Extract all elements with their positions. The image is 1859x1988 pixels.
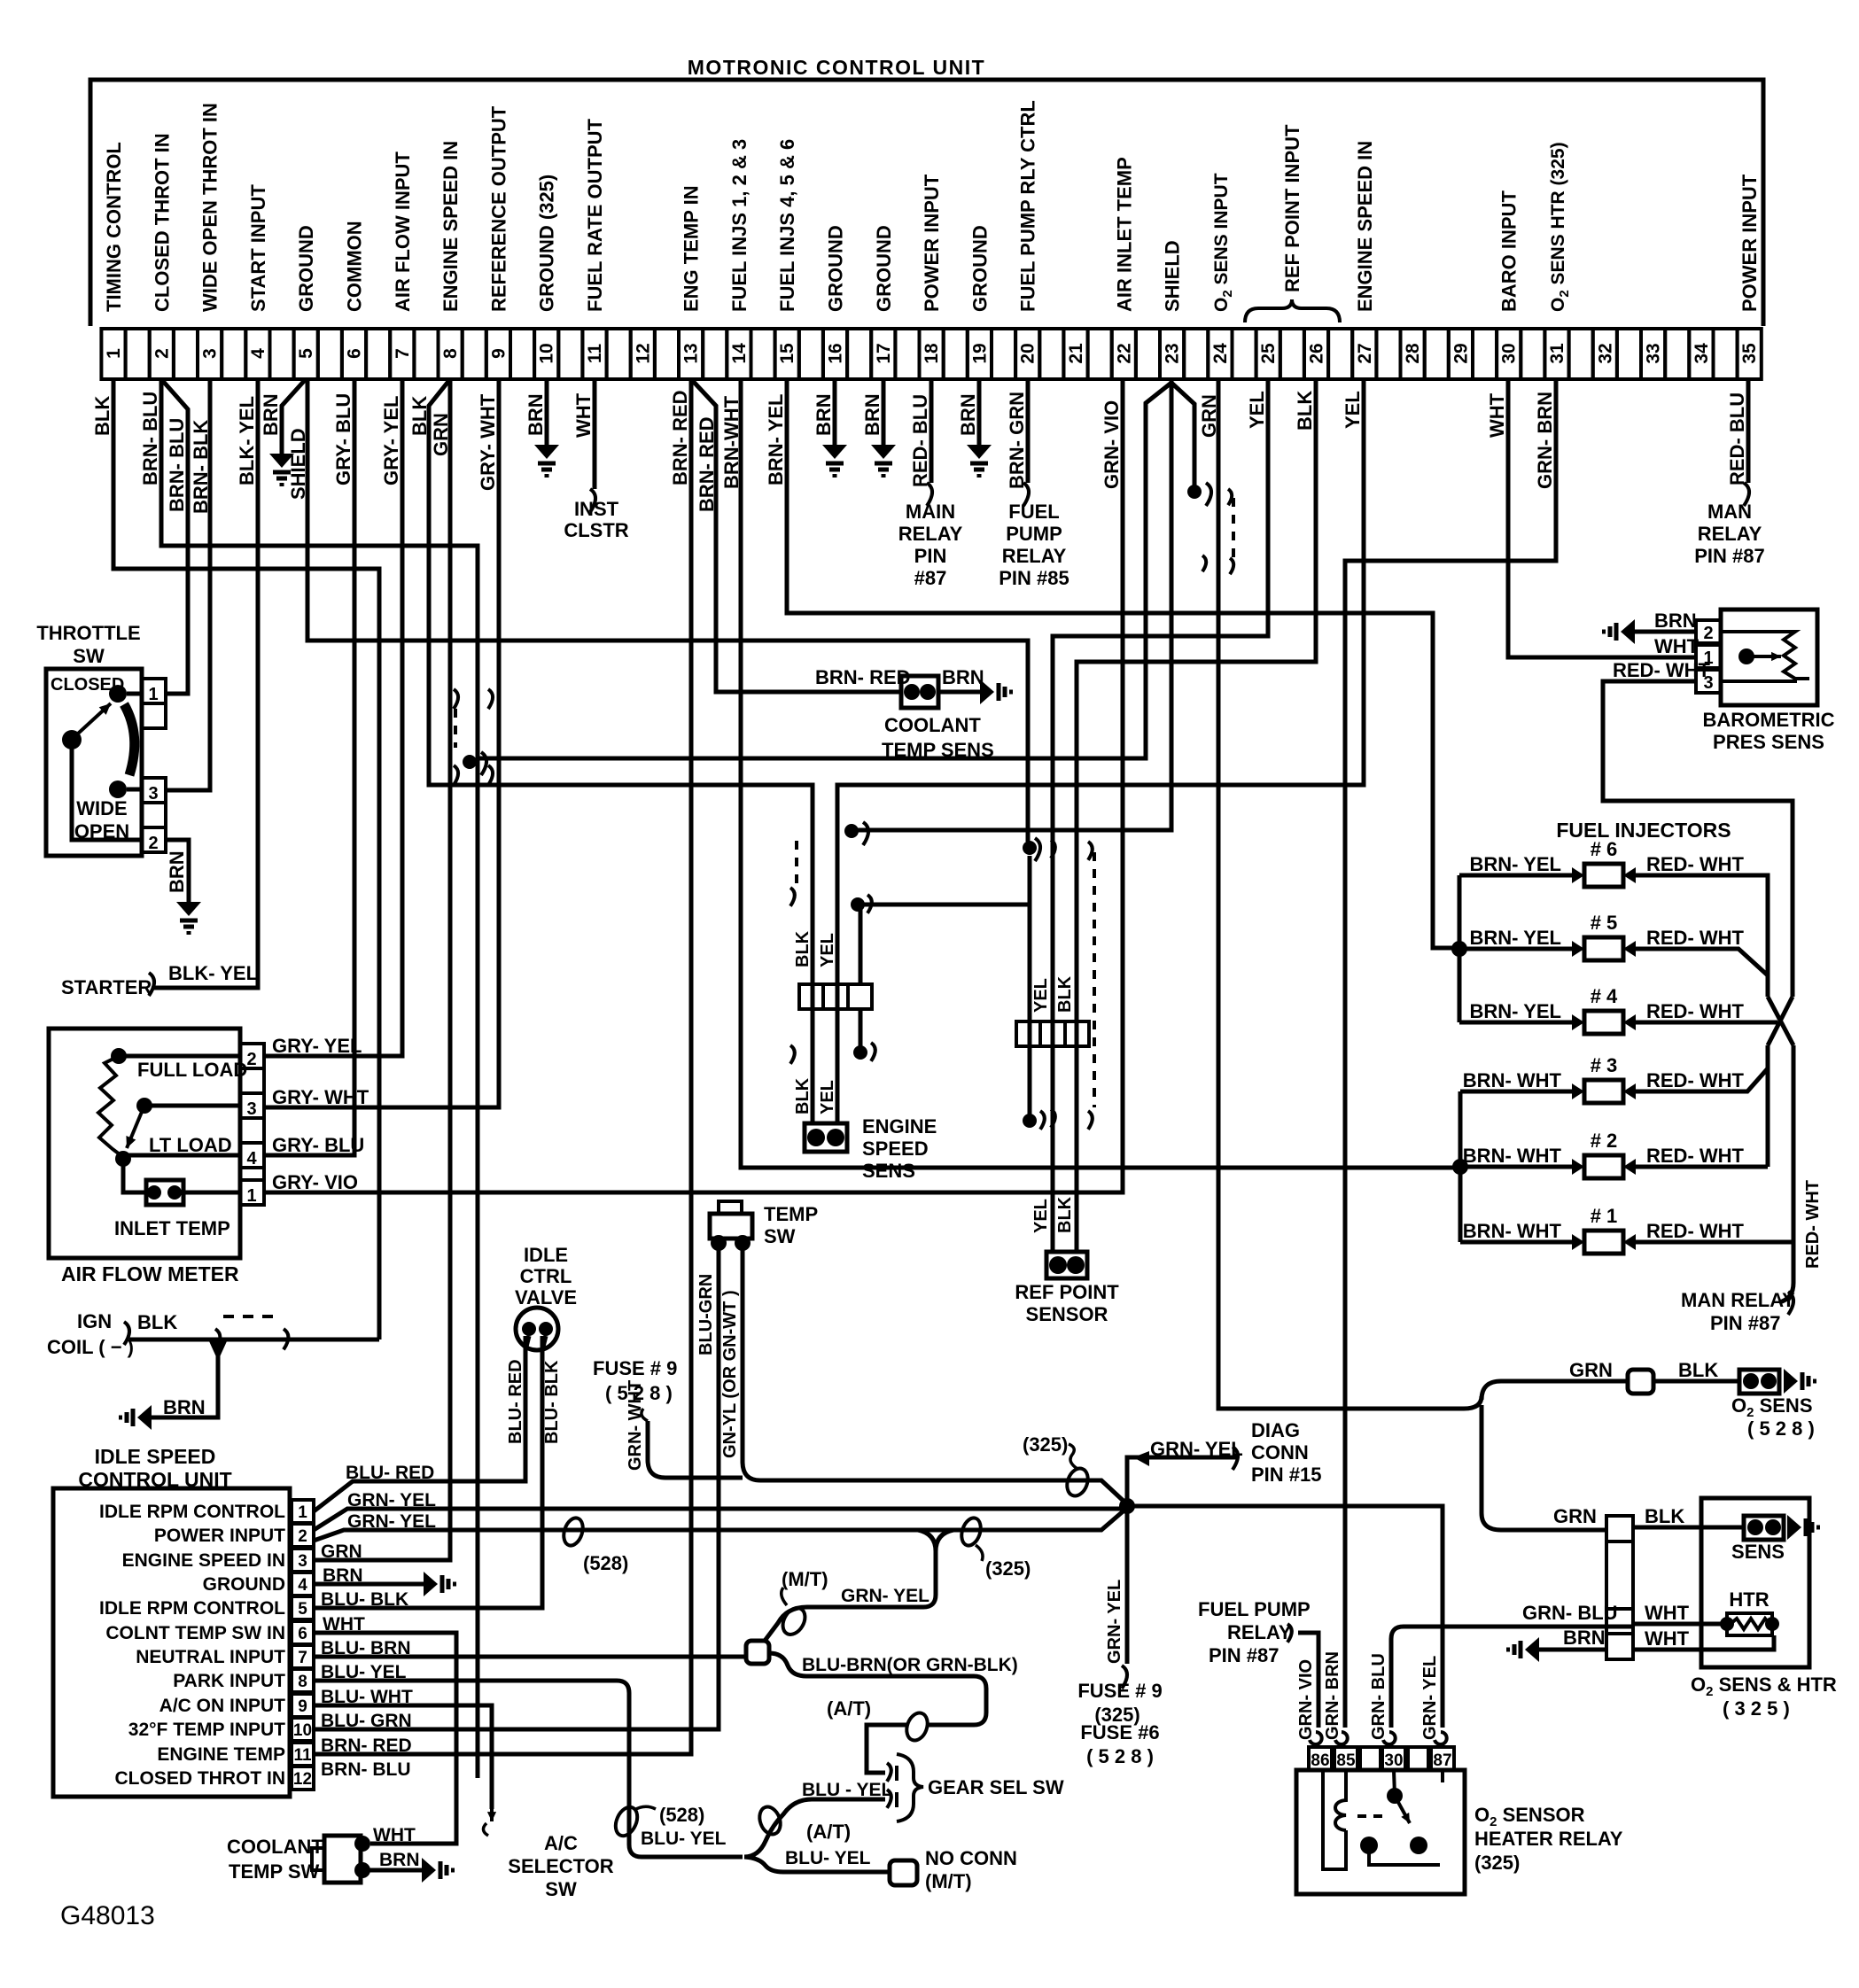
wire pin4 BLK-YEL to starter bbox=[152, 379, 258, 988]
inline connector on BRN-BLU closed-throt wire bbox=[454, 689, 458, 709]
svg-text:RELAY: RELAY bbox=[1227, 1621, 1292, 1643]
svg-text:COLNT TEMP SW IN: COLNT TEMP SW IN bbox=[105, 1623, 285, 1643]
svg-text:(M/T): (M/T) bbox=[925, 1870, 972, 1892]
svg-text:YEL: YEL bbox=[818, 1080, 837, 1114]
baro terminal 1 bbox=[1696, 645, 1721, 668]
svg-text:14: 14 bbox=[729, 343, 750, 364]
svg-text:FUEL RATE OUTPUT: FUEL RATE OUTPUT bbox=[584, 118, 606, 312]
svg-text:FUEL: FUEL bbox=[1008, 501, 1059, 523]
gear connector rect bbox=[746, 1641, 769, 1664]
svg-text:NO CONN: NO CONN bbox=[925, 1847, 1017, 1869]
svg-text:11: 11 bbox=[585, 344, 605, 364]
svg-text:BLK- YEL: BLK- YEL bbox=[236, 396, 258, 485]
svg-text:CTRL: CTRL bbox=[520, 1265, 572, 1287]
svg-text:IDLE SPEED: IDLE SPEED bbox=[95, 1445, 216, 1468]
wire pin13 BRN-RED to coolant temp sens bbox=[691, 379, 901, 692]
air flow meter box bbox=[49, 1029, 240, 1258]
ign coil wire bbox=[129, 1338, 379, 1342]
svg-text:( 3 2 5 ): ( 3 2 5 ) bbox=[1723, 1697, 1790, 1720]
svg-text:BLK: BLK bbox=[91, 396, 113, 436]
svg-text:17: 17 bbox=[874, 343, 894, 363]
svg-text:BLK: BLK bbox=[793, 1077, 813, 1114]
svg-text:8: 8 bbox=[440, 348, 461, 359]
wire pin24 GRN to O2 sensors bbox=[1218, 379, 1482, 1409]
svg-text:12: 12 bbox=[293, 1770, 312, 1789]
svg-text:SENS: SENS bbox=[862, 1160, 915, 1182]
svg-text:AIR INLET TEMP: AIR INLET TEMP bbox=[1113, 157, 1135, 312]
ISCU terminal 11 bbox=[292, 1743, 314, 1766]
baro wiper bbox=[1738, 648, 1754, 664]
svg-text:BARO INPUT: BARO INPUT bbox=[1498, 190, 1521, 312]
svg-text:AIR FLOW METER: AIR FLOW METER bbox=[61, 1262, 239, 1285]
wire pin17 BRN ground bbox=[882, 379, 886, 445]
MT branch from lower GRN-YEL bbox=[765, 1530, 936, 1641]
wire pin2 BRN-BLU to throttle sw 1 bbox=[161, 379, 188, 694]
brace over pins 25-26 REF POINT INPUT bbox=[1245, 299, 1340, 322]
ISCU terminal 8 bbox=[292, 1669, 314, 1692]
fuel injector 5 bbox=[1584, 937, 1623, 960]
svg-text:(528): (528) bbox=[659, 1804, 704, 1826]
svg-text:PIN #87: PIN #87 bbox=[1694, 545, 1765, 567]
svg-text:COIL ( − ): COIL ( − ) bbox=[47, 1336, 134, 1358]
svg-text:(A/T): (A/T) bbox=[806, 1821, 851, 1843]
svg-text:1: 1 bbox=[148, 685, 158, 704]
REF connector row bbox=[1016, 1021, 1040, 1046]
svg-text:FUEL PUMP: FUEL PUMP bbox=[1198, 1598, 1311, 1620]
svg-text:BLK- YEL: BLK- YEL bbox=[168, 962, 258, 984]
throttle terminal blank2 bbox=[142, 803, 166, 827]
svg-text:RED- WHT: RED- WHT bbox=[1646, 1069, 1745, 1091]
svg-text:PIN #15: PIN #15 bbox=[1251, 1464, 1322, 1486]
svg-text:GRY- BLU: GRY- BLU bbox=[332, 393, 354, 485]
wire pin22 GRN-VIO to air flow 1 bbox=[264, 379, 1123, 1192]
svg-text:1: 1 bbox=[298, 1503, 307, 1522]
svg-text:VALVE: VALVE bbox=[515, 1286, 577, 1309]
baro BRN ground wire bbox=[1635, 630, 1696, 634]
wire pin20 BRN-GRN to fuel pump relay bbox=[1026, 379, 1031, 483]
svg-text:POWER INPUT: POWER INPUT bbox=[921, 174, 943, 312]
ISCU t1 BLU-RED wire to idle valve bbox=[314, 1336, 525, 1511]
injector left bus BRN-YEL bbox=[1458, 875, 1462, 1022]
svg-text:GROUND: GROUND bbox=[203, 1574, 285, 1595]
svg-text:(A/T): (A/T) bbox=[827, 1697, 871, 1720]
svg-text:O2 SENS HTR (325): O2 SENS HTR (325) bbox=[1548, 142, 1572, 312]
svg-text:(M/T): (M/T) bbox=[782, 1568, 828, 1590]
svg-text:FUEL INJS 4, 5 & 6: FUEL INJS 4, 5 & 6 bbox=[776, 139, 798, 312]
svg-text:REF POINT: REF POINT bbox=[1015, 1281, 1119, 1303]
svg-text:RED- BLU: RED- BLU bbox=[1726, 392, 1748, 485]
ISCU t7 BLU-BRN wire to gear connector bbox=[314, 1655, 746, 1659]
svg-text:18: 18 bbox=[922, 343, 942, 364]
GRN-BLU wire relay 30 to O2 htr bbox=[1391, 1627, 1633, 1728]
svg-text:(528): (528) bbox=[583, 1552, 628, 1574]
wire pin16 BRN ground bbox=[833, 379, 837, 445]
svg-text:REFERENCE OUTPUT: REFERENCE OUTPUT bbox=[487, 105, 509, 312]
svg-text:SENSOR: SENSOR bbox=[1026, 1303, 1108, 1325]
svg-text:4: 4 bbox=[248, 348, 268, 359]
throttle terminal 3 bbox=[142, 778, 166, 803]
svg-text:20: 20 bbox=[1018, 343, 1038, 363]
svg-text:TEMP: TEMP bbox=[764, 1203, 818, 1225]
svg-text:( 5 2 8 ): ( 5 2 8 ) bbox=[1086, 1745, 1154, 1767]
GRN-YEL junction node bbox=[1119, 1498, 1135, 1514]
svg-text:2: 2 bbox=[1703, 624, 1713, 643]
svg-text:WHT: WHT bbox=[1486, 392, 1508, 438]
svg-text:CONTROL UNIT: CONTROL UNIT bbox=[78, 1468, 231, 1491]
air flow full load contact bbox=[111, 1048, 127, 1064]
air flow lt load contact bbox=[115, 1151, 131, 1167]
svg-text:REF POINT INPUT: REF POINT INPUT bbox=[1281, 124, 1303, 292]
svg-text:G48013: G48013 bbox=[60, 1901, 155, 1930]
svg-text:BRN: BRN bbox=[379, 1850, 420, 1870]
O2 sens 528 connector bbox=[1739, 1370, 1779, 1394]
svg-text:CLOSED THROT IN: CLOSED THROT IN bbox=[115, 1768, 286, 1789]
svg-text:BRN- RED: BRN- RED bbox=[321, 1736, 412, 1756]
svg-text:BRN- YEL: BRN- YEL bbox=[1470, 853, 1562, 875]
svg-text:4: 4 bbox=[246, 1149, 257, 1169]
ISCU t9 BLU-WHT wire to A/C selector bbox=[314, 1705, 492, 1809]
ISCU terminal 7 bbox=[292, 1645, 314, 1668]
svg-text:13: 13 bbox=[681, 343, 702, 363]
svg-text:PIN #85: PIN #85 bbox=[999, 567, 1070, 589]
temp switch bbox=[719, 1201, 742, 1214]
svg-text:BRN: BRN bbox=[861, 393, 883, 436]
svg-text:GRN: GRN bbox=[321, 1541, 362, 1562]
svg-text:GRY- VIO: GRY- VIO bbox=[272, 1171, 358, 1193]
O2 sens htr box bbox=[1701, 1498, 1809, 1667]
fuel injector 4 bbox=[1584, 1011, 1623, 1034]
svg-text:A/C: A/C bbox=[544, 1832, 578, 1854]
svg-text:PUMP: PUMP bbox=[1006, 523, 1062, 545]
svg-text:WHT: WHT bbox=[1645, 1602, 1690, 1624]
svg-text:GRN- YEL: GRN- YEL bbox=[347, 1490, 436, 1510]
ISCU t8 BLU-YEL wire bbox=[314, 1681, 743, 1857]
svg-text:START INPUT: START INPUT bbox=[247, 184, 269, 312]
svg-text:2: 2 bbox=[246, 1050, 256, 1069]
svg-text:TIMING CONTROL: TIMING CONTROL bbox=[103, 142, 125, 312]
svg-text:IGN: IGN bbox=[77, 1310, 112, 1332]
svg-text:INLET TEMP: INLET TEMP bbox=[114, 1217, 230, 1239]
svg-text:BRN: BRN bbox=[163, 1396, 206, 1418]
svg-text:PIN: PIN bbox=[914, 545, 947, 567]
wire pin5 SHIELD to ESS cable shield bbox=[307, 379, 1028, 842]
svg-text:GEAR SEL SW: GEAR SEL SW bbox=[928, 1776, 1064, 1798]
svg-text:CLSTR: CLSTR bbox=[564, 519, 628, 541]
svg-text:32: 32 bbox=[1595, 343, 1615, 363]
svg-text:IDLE RPM CONTROL: IDLE RPM CONTROL bbox=[99, 1598, 285, 1619]
O2 325 BRN/WHT row bbox=[1539, 1648, 1606, 1652]
svg-text:6: 6 bbox=[298, 1625, 307, 1643]
svg-text:YEL: YEL bbox=[1342, 391, 1364, 429]
svg-text:GRY- YEL: GRY- YEL bbox=[272, 1035, 362, 1057]
ISCU terminal 5 bbox=[292, 1596, 314, 1619]
svg-text:32°F TEMP INPUT: 32°F TEMP INPUT bbox=[128, 1720, 285, 1740]
relay coil bbox=[1323, 1770, 1346, 1869]
svg-text:BLU- BLK: BLU- BLK bbox=[321, 1589, 408, 1610]
svg-text:16: 16 bbox=[826, 343, 846, 363]
wire pin5 BRN to ground bbox=[282, 379, 306, 454]
ign junction to BRN ground bbox=[209, 1341, 227, 1361]
svg-text:# 1: # 1 bbox=[1591, 1205, 1618, 1227]
svg-text:30: 30 bbox=[1499, 343, 1520, 363]
svg-text:GRN- YEL: GRN- YEL bbox=[347, 1511, 436, 1532]
svg-text:SELECTOR: SELECTOR bbox=[508, 1855, 614, 1877]
svg-text:5: 5 bbox=[296, 348, 316, 359]
svg-text:BLU- YEL: BLU- YEL bbox=[321, 1662, 407, 1682]
svg-text:BLK: BLK bbox=[793, 930, 813, 967]
wire pin1 BLK timing control to IGN coil bbox=[113, 379, 379, 1340]
svg-text:GRN- YEL: GRN- YEL bbox=[1420, 1656, 1440, 1740]
MCU pin connector row (pins 1-35) bbox=[101, 329, 125, 379]
svg-text:PARK INPUT: PARK INPUT bbox=[173, 1671, 285, 1691]
svg-text:GROUND: GROUND bbox=[873, 225, 895, 312]
junction right branch to O2 heater relay 87 bbox=[1127, 1506, 1443, 1728]
svg-text:GRY- WHT: GRY- WHT bbox=[477, 393, 499, 491]
wire pin19 BRN ground bbox=[977, 379, 982, 445]
svg-text:31: 31 bbox=[1547, 343, 1567, 364]
svg-text:BRN: BRN bbox=[166, 850, 188, 893]
svg-text:BRN: BRN bbox=[942, 666, 984, 688]
svg-text:21: 21 bbox=[1066, 343, 1086, 364]
svg-text:BRN- WHT: BRN- WHT bbox=[1463, 1069, 1562, 1091]
svg-text:INST: INST bbox=[574, 498, 619, 520]
svg-text:9: 9 bbox=[488, 348, 509, 359]
throttle terminal blank bbox=[142, 703, 166, 728]
svg-text:POWER INPUT: POWER INPUT bbox=[1738, 174, 1761, 312]
throttle common wire to t2 bbox=[72, 747, 142, 840]
svg-text:BLK: BLK bbox=[1678, 1359, 1718, 1381]
svg-text:TEMP SW: TEMP SW bbox=[229, 1860, 320, 1883]
wire-end curls above relay terminals bbox=[1310, 1732, 1322, 1744]
svg-text:FUEL INJECTORS: FUEL INJECTORS bbox=[1556, 819, 1731, 842]
air flow resistor zigzag bbox=[98, 1056, 123, 1157]
svg-text:7: 7 bbox=[393, 348, 413, 359]
svg-text:ENGINE SPEED IN: ENGINE SPEED IN bbox=[439, 141, 462, 312]
svg-text:GROUND: GROUND bbox=[295, 225, 317, 312]
svg-text:GRN- BRN: GRN- BRN bbox=[1534, 392, 1556, 489]
wire pin15 BRN-YEL to injector bus bbox=[787, 379, 1453, 948]
svg-text:BRN- YEL: BRN- YEL bbox=[1470, 927, 1562, 949]
svg-text:BRN- GRN: BRN- GRN bbox=[1006, 392, 1028, 489]
svg-text:BRN: BRN bbox=[323, 1565, 363, 1586]
svg-text:1: 1 bbox=[104, 348, 124, 359]
baro terminal 2 bbox=[1696, 620, 1721, 643]
svg-text:BRN- RED: BRN- RED bbox=[815, 666, 911, 688]
svg-text:BRN- BLU: BRN- BLU bbox=[139, 392, 161, 485]
fuel injector 2 bbox=[1584, 1155, 1623, 1178]
svg-text:27: 27 bbox=[1355, 343, 1375, 363]
ISCU terminal 9 bbox=[292, 1694, 314, 1717]
svg-text:GRN: GRN bbox=[1569, 1359, 1613, 1381]
O2 325 connector strip bbox=[1606, 1516, 1633, 1541]
ESS drain wire upper bbox=[859, 905, 863, 984]
wire pin14 BRN-WHT to injector bus bbox=[741, 379, 1460, 1168]
svg-text:BLU- BLK: BLU- BLK bbox=[542, 1360, 562, 1444]
svg-text:TEMP SENS: TEMP SENS bbox=[882, 739, 994, 761]
wire pin2 BRN-BLU to ISCU t12 bbox=[161, 379, 478, 1778]
svg-text:GRY- WHT: GRY- WHT bbox=[272, 1086, 369, 1108]
ISCU terminal 6 bbox=[292, 1621, 314, 1644]
svg-text:GRN- BRN: GRN- BRN bbox=[1323, 1651, 1342, 1740]
svg-text:19: 19 bbox=[969, 343, 990, 363]
svg-text:3: 3 bbox=[298, 1552, 307, 1571]
svg-text:9: 9 bbox=[298, 1697, 307, 1716]
fuel injector 3 bbox=[1584, 1080, 1623, 1103]
wire pin27 YEL to engine speed sensor bbox=[837, 379, 1364, 1125]
325 loop on lower GRN-YEL bbox=[959, 1516, 984, 1549]
svg-text:HTR: HTR bbox=[1729, 1588, 1769, 1611]
svg-text:BRN- RED: BRN- RED bbox=[669, 390, 691, 485]
ISCU t5 BLU-BLK wire to idle valve bbox=[314, 1336, 542, 1608]
svg-text:BLU- RED: BLU- RED bbox=[346, 1463, 434, 1483]
X crossing bbox=[1768, 997, 1793, 1045]
svg-text:O2 SENS: O2 SENS bbox=[1731, 1394, 1813, 1420]
svg-text:SPEED: SPEED bbox=[862, 1138, 929, 1160]
svg-text:85: 85 bbox=[1336, 1751, 1356, 1770]
svg-text:26: 26 bbox=[1307, 343, 1327, 363]
svg-text:ENGINE: ENGINE bbox=[862, 1115, 937, 1138]
svg-text:BRN: BRN bbox=[813, 393, 835, 436]
svg-text:GN-YL (OR GN-WT ): GN-YL (OR GN-WT ) bbox=[720, 1290, 740, 1458]
svg-text:BRN- BLU: BRN- BLU bbox=[321, 1759, 410, 1780]
svg-text:3: 3 bbox=[148, 784, 158, 804]
svg-text:CONN: CONN bbox=[1251, 1441, 1309, 1464]
throttle arm arrow bbox=[62, 730, 82, 749]
wire pin30 WHT to barometric sensor bbox=[1508, 379, 1696, 657]
svg-text:RELAY: RELAY bbox=[1698, 523, 1762, 545]
svg-text:COOLANT: COOLANT bbox=[884, 714, 981, 736]
svg-text:2: 2 bbox=[298, 1527, 307, 1546]
svg-text:WHT: WHT bbox=[572, 392, 595, 438]
svg-text:GRN- WHT: GRN- WHT bbox=[626, 1380, 645, 1471]
wire pin6 GRY-BLU to air flow 4 bbox=[264, 379, 354, 1155]
svg-text:#87: #87 bbox=[914, 567, 947, 589]
svg-text:11: 11 bbox=[293, 1746, 312, 1765]
325 loop on GRN-YEL feed bbox=[1063, 1465, 1092, 1499]
svg-text:BLK: BLK bbox=[1055, 1196, 1075, 1233]
svg-text:CLOSED THROT IN: CLOSED THROT IN bbox=[151, 133, 173, 312]
svg-text:ENG TEMP IN: ENG TEMP IN bbox=[681, 185, 703, 312]
wire pin10 BRN ground bbox=[545, 379, 549, 445]
O2 sens 528 inline connector bbox=[1628, 1370, 1653, 1394]
svg-text:FUSE # 9: FUSE # 9 bbox=[593, 1357, 677, 1379]
svg-text:BLK: BLK bbox=[137, 1311, 177, 1333]
svg-text:2: 2 bbox=[152, 348, 172, 359]
svg-text:GRN- YEL: GRN- YEL bbox=[841, 1586, 929, 1606]
wire pin26 BLK to ref point sensor bbox=[1077, 379, 1316, 1252]
528 loop on BLU-YEL bbox=[611, 1804, 642, 1839]
coolant sw BRN wire to ground bbox=[362, 1868, 422, 1873]
svg-text:ENGINE SPEED IN: ENGINE SPEED IN bbox=[1354, 141, 1376, 312]
AT loop and drop to gear sel contact bbox=[903, 1710, 931, 1743]
svg-text:PIN #87: PIN #87 bbox=[1209, 1644, 1280, 1666]
gear sel sw brace bbox=[897, 1754, 923, 1821]
baro terminal 3 bbox=[1696, 670, 1721, 693]
relay box bbox=[1296, 1770, 1465, 1894]
air flow terminals 2,3,4,1 bbox=[240, 1044, 264, 1068]
svg-text:RELAY: RELAY bbox=[1002, 545, 1067, 567]
svg-text:FUEL PUMP RLY CTRL: FUEL PUMP RLY CTRL bbox=[1017, 100, 1039, 312]
svg-text:YEL: YEL bbox=[1031, 978, 1051, 1013]
pin23 shield dashed connector bbox=[1232, 498, 1235, 558]
ESS sensor connector bbox=[805, 1123, 847, 1152]
svg-text:RED- WHT: RED- WHT bbox=[1646, 1145, 1745, 1167]
svg-text:23: 23 bbox=[1163, 343, 1183, 363]
BLU-BRN OR GRN-BLK wire to AT gear switch bbox=[769, 1653, 986, 1725]
ISCU terminal 3 bbox=[292, 1549, 314, 1572]
svg-text:(325): (325) bbox=[1023, 1433, 1068, 1456]
svg-text:BRN: BRN bbox=[957, 393, 979, 436]
Motronic control unit box bbox=[90, 80, 1763, 326]
svg-text:NEUTRAL INPUT: NEUTRAL INPUT bbox=[136, 1647, 285, 1667]
injector right RED-WHT wires and X hub bbox=[1636, 875, 1768, 997]
throttle closed contact bbox=[109, 685, 127, 703]
svg-text:86: 86 bbox=[1311, 1751, 1329, 1770]
svg-text:33: 33 bbox=[1644, 343, 1664, 363]
svg-text:4: 4 bbox=[298, 1576, 307, 1595]
svg-text:COOLANT: COOLANT bbox=[227, 1836, 323, 1858]
svg-text:(325): (325) bbox=[985, 1557, 1031, 1580]
svg-text:# 4: # 4 bbox=[1591, 985, 1618, 1007]
svg-text:RED- WHT: RED- WHT bbox=[1613, 659, 1711, 681]
svg-text:FUSE # 9: FUSE # 9 bbox=[1077, 1680, 1162, 1702]
ISCU terminal 4 bbox=[292, 1573, 314, 1596]
svg-text:STARTER: STARTER bbox=[61, 976, 152, 998]
svg-text:12: 12 bbox=[633, 343, 653, 363]
ISCU terminal 2 bbox=[292, 1524, 314, 1547]
relay dashed link bbox=[1357, 1814, 1386, 1818]
svg-text:3: 3 bbox=[246, 1099, 256, 1119]
svg-text:DIAG: DIAG bbox=[1251, 1419, 1300, 1441]
REF cable shield arcs top bbox=[1051, 840, 1055, 858]
svg-text:BRN- YEL: BRN- YEL bbox=[1470, 1000, 1562, 1022]
svg-text:WIDE: WIDE bbox=[76, 797, 127, 819]
wire pin8 GRN to ISCU t3 bbox=[314, 379, 450, 1560]
relay switch bbox=[1387, 1788, 1403, 1804]
relay terminals bbox=[1309, 1747, 1332, 1770]
svg-text:22: 22 bbox=[1114, 343, 1134, 363]
svg-text:1: 1 bbox=[246, 1186, 256, 1206]
svg-text:RED- WHT: RED- WHT bbox=[1646, 927, 1745, 949]
svg-text:BLK: BLK bbox=[1645, 1505, 1684, 1527]
svg-text:2: 2 bbox=[148, 834, 158, 853]
svg-text:SENS: SENS bbox=[1731, 1541, 1785, 1563]
svg-text:15: 15 bbox=[777, 343, 797, 364]
svg-text:BRN: BRN bbox=[1563, 1627, 1606, 1649]
svg-text:SHIELD: SHIELD bbox=[1162, 240, 1184, 312]
svg-text:SW: SW bbox=[764, 1225, 796, 1247]
svg-text:BLU- BRN: BLU- BRN bbox=[321, 1638, 410, 1658]
svg-text:WHT: WHT bbox=[373, 1825, 416, 1845]
temp sw GN-YL wire to GRN-YEL net bbox=[743, 1248, 1127, 1504]
wire pin31 GRN-BRN to O2 heater relay 85 bbox=[1345, 379, 1556, 1728]
svg-text:BLU- YEL: BLU- YEL bbox=[641, 1829, 727, 1849]
ign wire inline connector bbox=[215, 1329, 220, 1349]
svg-text:SW: SW bbox=[73, 645, 105, 667]
svg-text:24: 24 bbox=[1210, 343, 1231, 364]
svg-text:# 3: # 3 bbox=[1591, 1054, 1618, 1076]
svg-text:IDLE RPM CONTROL: IDLE RPM CONTROL bbox=[99, 1502, 285, 1522]
svg-text:GRY- YEL: GRY- YEL bbox=[380, 396, 402, 485]
svg-text:MAIN: MAIN bbox=[906, 501, 955, 523]
baro RED-WHT wire to injector bus bbox=[1603, 681, 1793, 997]
svg-text:BRN: BRN bbox=[525, 393, 547, 436]
svg-text:AIR FLOW INPUT: AIR FLOW INPUT bbox=[392, 151, 414, 312]
svg-text:28: 28 bbox=[1403, 343, 1423, 364]
svg-text:BLU- RED: BLU- RED bbox=[506, 1359, 525, 1444]
fuel injector 6 bbox=[1584, 864, 1623, 887]
wire pin25 YEL to ref point sensor bbox=[1053, 379, 1268, 1252]
